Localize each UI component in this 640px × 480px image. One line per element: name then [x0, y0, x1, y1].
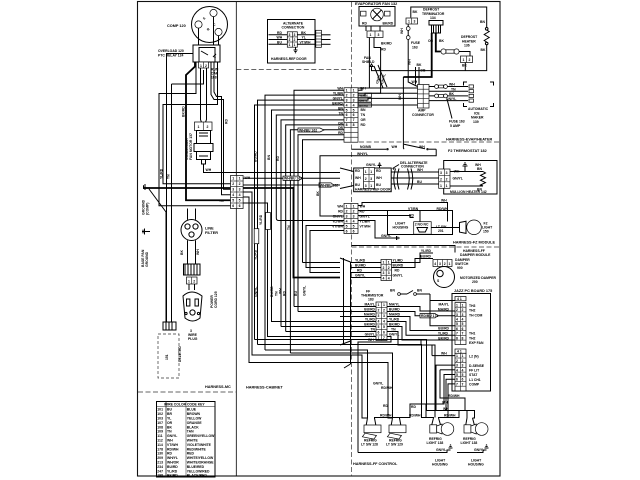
- svg-text:LT SW 129: LT SW 129: [386, 443, 403, 447]
- svg-text:2: 2: [469, 58, 471, 62]
- svg-text:6: 6: [383, 331, 385, 335]
- border frame: [138, 2, 501, 477]
- defrost connector 1 2: [461, 56, 473, 63]
- svg-text:BK: BK: [417, 63, 422, 67]
- svg-text:4: 4: [434, 262, 436, 266]
- svg-text:6: 6: [346, 229, 348, 233]
- jazz connector column B: [455, 349, 466, 391]
- inline fuse on ice maker wire 2: [435, 94, 448, 98]
- trunk wire row6: [276, 115, 344, 218]
- svg-text:1: 1: [383, 303, 385, 307]
- svg-text:1: 1: [370, 33, 372, 37]
- svg-text:5: 5: [353, 108, 355, 112]
- lights run 6: [352, 363, 393, 419]
- svg-text:CONNECTION: CONNECTION: [282, 26, 305, 30]
- trunk wire row3: [258, 100, 345, 344]
- svg-text:TN: TN: [219, 199, 224, 203]
- svg-text:TH2: TH2: [469, 309, 476, 313]
- svg-text:1: 1: [346, 204, 348, 208]
- svg-text:1: 1: [440, 184, 442, 188]
- base pan ground symbol: [142, 229, 150, 235]
- label REFRIG LIGHT 138 a: [427, 437, 444, 445]
- svg-text:+: +: [214, 56, 216, 60]
- svg-text:JAZZ PC BOARD 175: JAZZ PC BOARD 175: [454, 289, 492, 293]
- svg-text:107: 107: [157, 421, 163, 425]
- trunk wire row5: [272, 110, 345, 322]
- svg-text:WH/BU 162: WH/BU 162: [299, 128, 317, 132]
- wire evap fan to connector a: [365, 26, 367, 31]
- svg-text:LIGHT 138: LIGHT 138: [427, 441, 444, 445]
- svg-text:178: 178: [157, 447, 163, 451]
- lights run 1: [352, 350, 368, 418]
- svg-text:8: 8: [353, 123, 355, 127]
- svg-text:6: 6: [456, 327, 458, 331]
- svg-text:2 NO NC: 2 NO NC: [415, 223, 429, 227]
- trunk FF MA/RD: [272, 317, 341, 322]
- svg-text:2: 2: [446, 177, 448, 181]
- svg-text:3: 3: [456, 313, 458, 317]
- svg-text:1: 1: [188, 279, 190, 283]
- svg-text:5: 5: [232, 199, 234, 203]
- jazz L2 feed: [421, 340, 455, 356]
- thermistor symbol: [390, 289, 430, 296]
- svg-text:BK/RD: BK/RD: [167, 474, 178, 478]
- svg-text:VIOLET/WHITE: VIOLET/WHITE: [187, 443, 212, 447]
- svg-text:6: 6: [456, 378, 458, 382]
- svg-text:RD: RD: [357, 269, 362, 273]
- mullion connector: [439, 169, 450, 188]
- svg-text:PTC RELAY 124: PTC RELAY 124: [158, 54, 184, 58]
- svg-text:FAN MOTOR 137: FAN MOTOR 137: [189, 133, 193, 160]
- trunk bottom run D: [290, 352, 351, 354]
- ground on ref door box: [378, 163, 382, 168]
- svg-text:3: 3: [446, 171, 448, 175]
- wire stubs amp top: [416, 63, 426, 85]
- svg-text:DAMPER MODULE: DAMPER MODULE: [460, 253, 491, 257]
- wire run cap to condenser motor b: [205, 68, 207, 125]
- svg-text:RD: RD: [409, 214, 414, 218]
- svg-text:RD: RD: [338, 210, 343, 214]
- svg-text:4: 4: [346, 219, 348, 223]
- svg-text:RD/WH: RD/WH: [444, 414, 456, 418]
- svg-text:BK: BK: [413, 10, 418, 14]
- trunk bottom run C: [265, 349, 352, 351]
- svg-text:MA/RD: MA/RD: [438, 307, 450, 311]
- wire P1 area down to line filter a: [187, 240, 189, 264]
- refrig light 138 bulb1: [430, 418, 454, 435]
- svg-text:6: 6: [239, 204, 241, 208]
- svg-text:BROWN: BROWN: [187, 412, 201, 416]
- svg-text:ORANGE: ORANGE: [187, 421, 203, 425]
- svg-text:7: 7: [456, 332, 458, 336]
- svg-text:WH/OR: WH/OR: [167, 461, 179, 465]
- wire stub into line filter b: [195, 209, 197, 220]
- connector P2 cabinet-evap: [344, 88, 358, 142]
- svg-text:WH: WH: [392, 145, 398, 149]
- label BASE PAN GROUND vertical: [141, 249, 149, 267]
- fuse 163 inline: [441, 49, 459, 54]
- svg-text:GN/YL: GN/YL: [254, 287, 258, 297]
- label F2 LIGHT 150: [482, 222, 493, 234]
- svg-text:TN: TN: [451, 87, 456, 91]
- wire P3 WH to fz bulb: [358, 203, 448, 222]
- svg-text:BK: BK: [180, 250, 184, 255]
- ff row GN/YL: [351, 274, 403, 278]
- svg-text:2: 2: [239, 182, 241, 186]
- ff rows labels right of P5: [389, 303, 401, 337]
- wire comp C pin down: [213, 17, 215, 45]
- svg-text:BN: BN: [267, 155, 271, 160]
- label POWER CORD 125 vertical: [210, 291, 218, 308]
- svg-text:8: 8: [462, 336, 464, 340]
- svg-text:8: 8: [346, 123, 348, 127]
- svg-text:WH: WH: [400, 28, 404, 34]
- trunk wire row9: [290, 130, 344, 353]
- svg-text:HARNESS-FZ MODULE: HARNESS-FZ MODULE: [453, 241, 495, 245]
- svg-text:RD: RD: [362, 22, 367, 26]
- section divider harness-mc / harness-cabinet: [235, 2, 237, 476]
- svg-text:1: 1: [456, 303, 458, 307]
- svg-text:5: 5: [456, 322, 458, 326]
- svg-text:RD/WH: RD/WH: [409, 414, 421, 418]
- deleted dashed box: [158, 334, 182, 378]
- svg-text:STAT: STAT: [469, 373, 478, 377]
- svg-text:MA/YL: MA/YL: [438, 303, 449, 307]
- svg-text:TAN: TAN: [187, 430, 194, 434]
- svg-text:HARNESS-CABINET: HARNESS-CABINET: [246, 386, 283, 390]
- svg-text:130: 130: [157, 452, 163, 456]
- ref door funnel: [340, 168, 354, 189]
- overload PTC relay box: [193, 45, 220, 62]
- svg-text:3: 3: [462, 364, 464, 368]
- svg-text:GN/YL: GN/YL: [366, 163, 376, 167]
- svg-text:2: 2: [294, 38, 296, 42]
- svg-text:RD: RD: [167, 452, 172, 456]
- svg-text:GREEN/YELLOW: GREEN/YELLOW: [187, 434, 215, 438]
- svg-text:3: 3: [439, 262, 441, 266]
- svg-text:3: 3: [346, 98, 348, 102]
- svg-text:6: 6: [353, 113, 355, 117]
- svg-text:BK: BK: [449, 92, 454, 96]
- svg-text:TN: TN: [167, 430, 172, 434]
- svg-text:1: 1: [408, 20, 410, 24]
- svg-text:3: 3: [462, 313, 464, 317]
- alternate connection connector: [287, 32, 297, 47]
- jazz column B labels: [469, 354, 485, 386]
- svg-text:3: 3: [378, 33, 380, 37]
- wire labels lights: [368, 338, 456, 418]
- svg-text:WH: WH: [277, 36, 283, 40]
- refrig lt sw 128: [362, 418, 381, 439]
- svg-text:1: 1: [462, 303, 464, 307]
- svg-text:BN: BN: [390, 289, 395, 293]
- svg-text:BU: BU: [294, 291, 298, 296]
- svg-text:1: 1: [446, 184, 448, 188]
- svg-text:WH: WH: [376, 176, 382, 180]
- lights run 2: [352, 353, 393, 418]
- svg-text:6: 6: [462, 327, 464, 331]
- svg-text:4: 4: [456, 318, 458, 322]
- alternate connection wires right with cable: [297, 30, 330, 47]
- label DEFROST HEATER 136: [461, 35, 478, 48]
- label OVERLOAD 120 PTC RELAY 124: [158, 49, 184, 58]
- svg-text:4: 4: [383, 276, 385, 280]
- svg-text:WIRE COLOR CODE KEY: WIRE COLOR CODE KEY: [164, 403, 205, 407]
- svg-text:VT/WH: VT/WH: [167, 443, 178, 447]
- wire comp S pin to overload: [198, 28, 200, 45]
- svg-text:234: 234: [157, 465, 163, 469]
- ff row BU/RD: [351, 264, 404, 268]
- svg-text:GN/YL: GN/YL: [303, 286, 307, 296]
- trunk wire row10: [298, 135, 344, 312]
- svg-text:YL/RD: YL/RD: [259, 214, 263, 225]
- left connector block P1: [231, 176, 244, 209]
- svg-text:WH: WH: [408, 59, 412, 65]
- svg-text:BU/RD: BU/RD: [438, 327, 449, 331]
- wire P1 ext to ref door r3: [243, 184, 340, 186]
- svg-text:7: 7: [456, 382, 458, 386]
- section divider harness-mc bottom: [138, 391, 236, 393]
- wire defrost connector left pin: [464, 63, 466, 71]
- svg-text:163: 163: [412, 45, 418, 49]
- wire elbow e1: [172, 70, 204, 84]
- svg-text:2: 2: [462, 308, 464, 312]
- svg-text:L2 (N): L2 (N): [469, 354, 479, 358]
- wires P5 to jazz: [358, 307, 455, 453]
- ff harness funnel trapezoid: [340, 258, 351, 368]
- svg-text:RD: RD: [355, 169, 360, 173]
- svg-text:WH: WH: [441, 352, 447, 356]
- wire P1 GN/YL thick to FF GN/YL: [243, 188, 340, 278]
- svg-text:2: 2: [444, 262, 446, 266]
- ff lower rows labels left: [364, 303, 376, 337]
- svg-text:HARNESS-EVAP/HEATER: HARNESS-EVAP/HEATER: [446, 138, 493, 142]
- jazz D-SENSE feed from thermistor: [430, 294, 455, 326]
- svg-text:HOUSING: HOUSING: [432, 463, 448, 467]
- svg-text:111: 111: [157, 434, 162, 438]
- wire splice to defrost connector: [459, 52, 470, 57]
- wire comp R pin down: [218, 36, 220, 45]
- svg-text:2: 2: [456, 308, 458, 312]
- mullion ground: [463, 163, 482, 172]
- compressor COMP 120: [192, 7, 228, 43]
- svg-text:1: 1: [370, 170, 372, 174]
- trunk wire row2: [265, 95, 344, 350]
- P2 pin numbers: [346, 88, 355, 127]
- svg-text:TH COM: TH COM: [469, 313, 483, 317]
- svg-text:BK: BK: [481, 48, 486, 52]
- wire rd pair a: [214, 62, 231, 195]
- trunk wire row4: [255, 105, 345, 339]
- trunk wire row7: [281, 120, 344, 327]
- svg-text:TN: TN: [287, 225, 291, 230]
- line filter: [181, 220, 202, 241]
- svg-text:BU: BU: [376, 183, 381, 187]
- svg-text:BU: BU: [277, 41, 282, 45]
- svg-text:RD: RD: [411, 405, 416, 409]
- svg-text:BK: BK: [462, 64, 467, 68]
- svg-text:BK/RD: BK/RD: [383, 22, 394, 26]
- svg-text:2: 2: [353, 209, 355, 213]
- jazz L1 feed: [446, 379, 455, 410]
- condenser fan motor 137: [194, 122, 213, 164]
- svg-text:7: 7: [353, 118, 355, 122]
- svg-text:GN/YL: GN/YL: [355, 274, 365, 278]
- svg-text:YL/RD: YL/RD: [355, 259, 366, 263]
- svg-text:D-SENSE: D-SENSE: [469, 364, 485, 368]
- svg-text:HARNESS-MC: HARNESS-MC: [205, 385, 231, 389]
- svg-text:BU/RD: BU/RD: [167, 465, 178, 469]
- evaporator fan 132: [355, 2, 397, 26]
- svg-text:4: 4: [353, 219, 355, 223]
- svg-text:183: 183: [368, 298, 374, 302]
- svg-text:1: 1: [456, 354, 458, 358]
- label RUN CAP 188: [211, 68, 219, 80]
- svg-text:WHITE: WHITE: [187, 439, 199, 443]
- svg-text:2: 2: [383, 266, 385, 270]
- svg-text:WH/BU 162: WH/BU 162: [320, 183, 338, 187]
- svg-text:YELLOW/RED: YELLOW/RED: [187, 469, 210, 473]
- P2 left labels: [332, 87, 343, 136]
- automatic ice maker bracket: [464, 82, 494, 107]
- svg-text:SHIELD: SHIELD: [362, 60, 375, 64]
- svg-text:WH/BU 162: WH/BU 162: [284, 177, 302, 181]
- svg-text:HARNESS-FF CONTROL: HARNESS-FF CONTROL: [353, 462, 398, 466]
- wire tag WH/BU 162: [298, 128, 324, 132]
- label LINE FILTER: [205, 227, 218, 236]
- svg-text:YL/RD: YL/RD: [393, 259, 404, 263]
- wire color table rows: [157, 408, 215, 478]
- svg-text:GN/YL: GN/YL: [393, 274, 403, 278]
- svg-text:7: 7: [346, 118, 348, 122]
- motorized damper circle: [434, 267, 455, 288]
- wire stub into line filter a: [187, 209, 189, 220]
- connector P5: [376, 302, 387, 341]
- label AUTOMATIC ICE MAKER 139: [468, 107, 489, 124]
- svg-text:NO/NB: NO/NB: [360, 145, 371, 149]
- svg-text:OVERLOAD 120: OVERLOAD 120: [158, 49, 184, 53]
- trunk FF BU/RD: [298, 311, 340, 313]
- svg-text:6: 6: [462, 378, 464, 382]
- svg-text:2: 2: [456, 359, 458, 363]
- svg-text:3: 3: [414, 20, 416, 24]
- svg-text:5 AMP: 5 AMP: [450, 124, 461, 128]
- power cord strain relief: [184, 264, 201, 275]
- svg-text:2: 2: [346, 209, 348, 213]
- label GROUND COMP vertical: [142, 199, 150, 215]
- svg-text:6: 6: [353, 229, 355, 233]
- svg-text:RD/WH: RD/WH: [380, 414, 392, 418]
- svg-text:LIGHT 138: LIGHT 138: [461, 441, 478, 445]
- svg-text:2: 2: [388, 266, 390, 270]
- wire P1 area down to line filter b: [195, 240, 197, 264]
- lights run 5: [352, 355, 368, 418]
- refrig lt sw 129: [387, 418, 406, 439]
- wire P3 RD to switch left: [358, 216, 414, 218]
- svg-text:TH3: TH3: [469, 304, 476, 308]
- svg-text:FILTER: FILTER: [205, 231, 218, 235]
- svg-text:5: 5: [383, 325, 385, 329]
- svg-text:1: 1: [289, 43, 291, 47]
- svg-text:201: 201: [438, 229, 444, 233]
- vertical tag on trunk b: [266, 213, 271, 230]
- svg-text:BN: BN: [417, 289, 422, 293]
- svg-text:1: 1: [239, 177, 241, 181]
- wire P1 TN to FF row: [243, 203, 340, 337]
- svg-text:WH/YL: WH/YL: [167, 456, 178, 460]
- svg-text:COMP 120: COMP 120: [167, 24, 186, 28]
- svg-text:1: 1: [353, 88, 355, 92]
- svg-text:BLACK/RED: BLACK/RED: [187, 474, 208, 478]
- terminal box bottom left: [163, 322, 176, 330]
- svg-text:3: 3: [383, 314, 385, 318]
- svg-text:1: 1: [383, 261, 385, 265]
- label DAMPER SWITCH 900: [455, 258, 470, 270]
- svg-text:3: 3: [440, 171, 442, 175]
- ff row YL/RD: [351, 259, 404, 263]
- svg-text:BU/RD: BU/RD: [393, 264, 404, 268]
- svg-text:BU/RD: BU/RD: [254, 151, 258, 162]
- wire overload to left loop: [186, 62, 231, 200]
- svg-text:BU: BU: [167, 408, 172, 412]
- defrost heater loop wire: [411, 7, 487, 28]
- svg-text:WH: WH: [417, 168, 423, 172]
- label LT SW 201: [436, 225, 447, 233]
- svg-text:1: 1: [388, 261, 390, 265]
- svg-text:7: 7: [462, 332, 464, 336]
- label 3 WIRE PLUG: [188, 329, 198, 341]
- svg-text:108: 108: [157, 425, 163, 429]
- wire ground comp to connector thick GN/YL: [150, 187, 231, 189]
- svg-text:WHITE/ORANGE: WHITE/ORANGE: [187, 461, 214, 465]
- wire run cap to condenser motor a: [201, 68, 203, 125]
- svg-text:BN: BN: [361, 108, 366, 112]
- svg-text:3: 3: [383, 271, 385, 275]
- svg-text:1: 1: [463, 58, 465, 62]
- P1 pin numbers: [232, 177, 240, 209]
- wire P1 row to lights run2: [243, 197, 351, 363]
- wire condenser motor WH long to ref door: [204, 164, 341, 173]
- svg-text:1: 1: [378, 303, 380, 307]
- svg-text:151: 151: [165, 354, 169, 360]
- svg-text:1: 1: [353, 204, 355, 208]
- svg-text:2: 2: [289, 38, 291, 42]
- svg-text:1: 1: [346, 88, 348, 92]
- svg-text:LINE: LINE: [205, 227, 214, 231]
- svg-text:5: 5: [353, 224, 355, 228]
- F2 thermostat switch: [352, 144, 437, 150]
- jazz feed labels: [438, 303, 450, 341]
- svg-text:1: 1: [200, 64, 202, 68]
- svg-text:1: 1: [365, 170, 367, 174]
- section divider harness-cabinet / right sections: [351, 2, 353, 476]
- svg-text:247: 247: [157, 469, 163, 473]
- svg-text:BU/RD: BU/RD: [420, 255, 431, 259]
- svg-text:VT/WH: VT/WH: [360, 225, 371, 229]
- svg-text:RD: RD: [283, 291, 287, 296]
- jazz pc board 175: [452, 289, 492, 391]
- label REFRIG LIGHT 138 b: [461, 437, 478, 445]
- wire color code table: [157, 402, 216, 478]
- vertical label cluster trunk bottom: [254, 286, 287, 297]
- svg-text:4: 4: [232, 193, 234, 197]
- svg-text:RED/WHITE: RED/WHITE: [187, 447, 207, 451]
- svg-text:BK/RD: BK/RD: [381, 42, 392, 46]
- svg-text:(COMP): (COMP): [146, 203, 150, 215]
- svg-text:101: 101: [157, 408, 163, 412]
- svg-text:TH2: TH2: [469, 336, 476, 340]
- trunk wire P3 row5 to FF: [306, 226, 344, 268]
